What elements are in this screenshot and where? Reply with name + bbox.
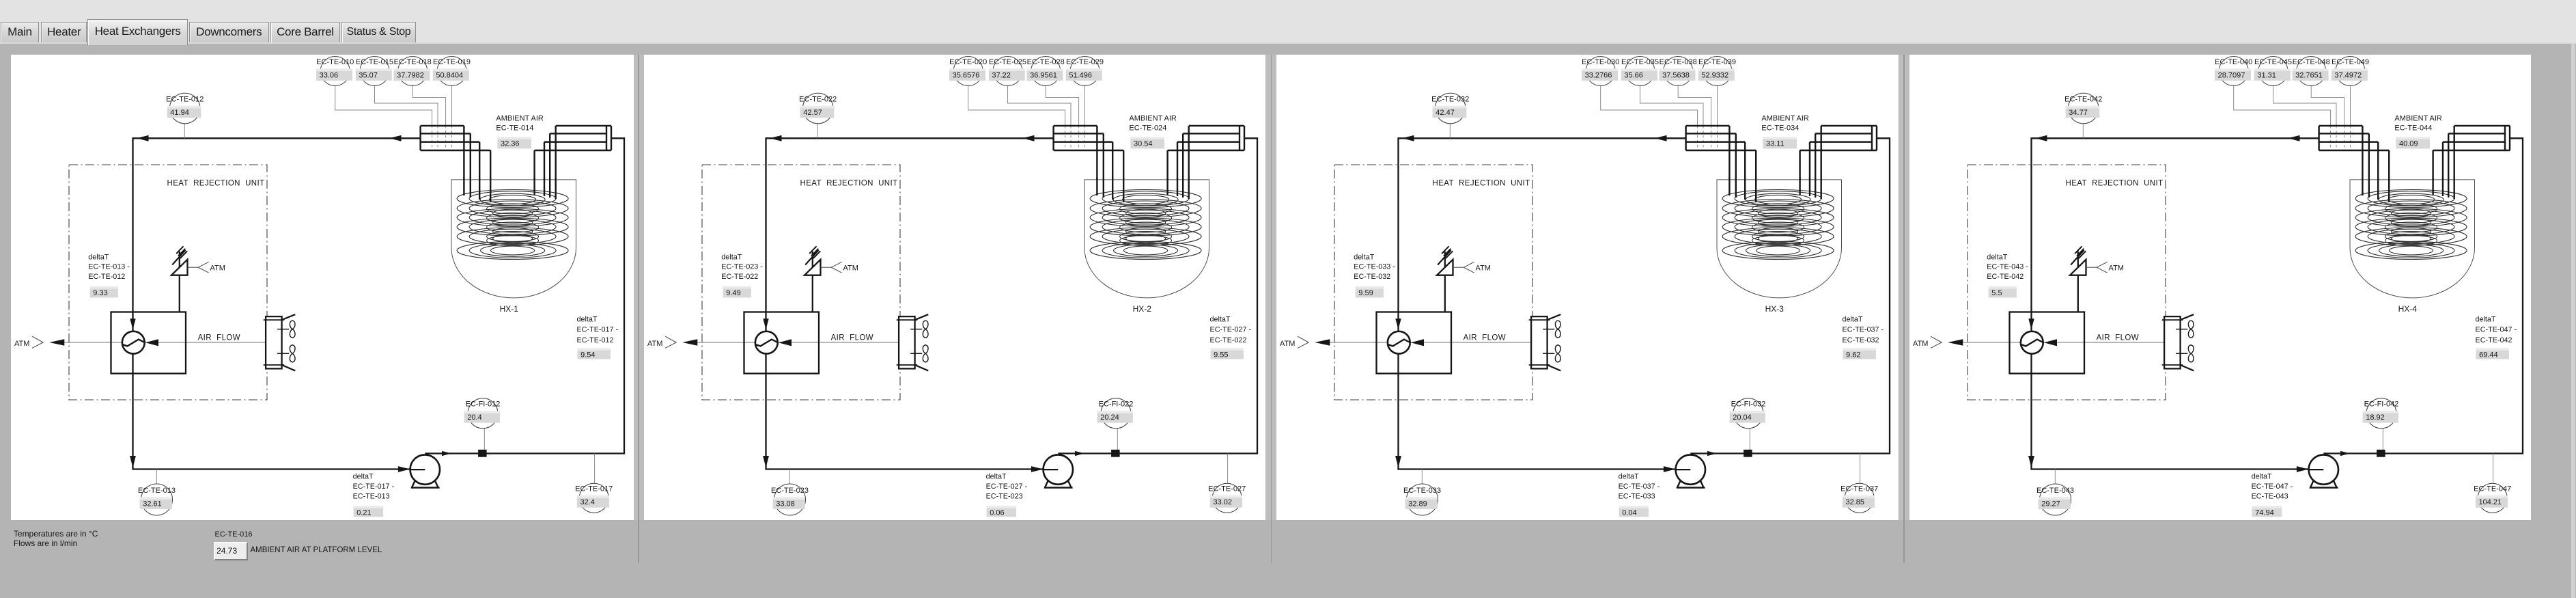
- svg-text:EC-TE-027: EC-TE-027: [1208, 485, 1246, 493]
- svg-text:EC-TE-042: EC-TE-042: [2475, 336, 2512, 344]
- radiator coil: [899, 316, 915, 368]
- flow arrow into fan circle: [2028, 318, 2034, 329]
- svg-text:ATM: ATM: [14, 340, 29, 348]
- air flow arrow at fan outlet: [778, 339, 791, 346]
- leader wire EC-TE-045: [2273, 86, 2336, 126]
- node ATM vent label: [1453, 267, 1464, 268]
- svg-text:20.04: 20.04: [1733, 413, 1752, 422]
- svg-text:42.47: 42.47: [1436, 109, 1455, 117]
- svg-text:deltaT: deltaT: [985, 472, 1006, 480]
- svg-text:EC-TE-043 -: EC-TE-043 -: [1987, 263, 2028, 271]
- HX inlet header bank: [421, 126, 491, 202]
- HX vessel shell: [1717, 180, 1842, 298]
- svg-text:deltaT: deltaT: [1209, 315, 1230, 323]
- svg-text:9.59: 9.59: [1359, 289, 1373, 297]
- fan blades upper: [277, 329, 289, 330]
- svg-text:ATM: ATM: [843, 264, 858, 272]
- svg-text:EC-TE-037 -: EC-TE-037 -: [1619, 483, 1660, 491]
- instrument bubble EC-TE-010: [320, 57, 350, 86]
- leader wire EC-TE-040: [2233, 86, 2330, 126]
- instrument bubble EC-TE-019: [437, 57, 466, 86]
- node ATM vent label: [2086, 267, 2097, 268]
- instrument bubble EC-TE-038: [1664, 57, 1693, 86]
- svg-text:32.7651: 32.7651: [2295, 71, 2323, 79]
- wire main loop: top pipe / left downpipe / bottom pipe: [133, 138, 421, 469]
- instrument bubble EC-TE-015: [360, 57, 389, 86]
- leader wire EC-TE-010: [335, 86, 432, 126]
- svg-text:EC-TE-023 -: EC-TE-023 -: [721, 263, 763, 271]
- wire main loop: top pipe / left downpipe / bottom pipe: [1399, 138, 1686, 469]
- HX inlet header bank: [1053, 126, 1123, 202]
- svg-text:EC-TE-049: EC-TE-049: [2332, 58, 2369, 66]
- HX outlet header bank: [2433, 126, 2509, 202]
- instrument bubble EC-TE-039: [1703, 57, 1732, 86]
- svg-text:deltaT: deltaT: [2475, 315, 2495, 323]
- svg-text:35.66: 35.66: [1625, 71, 1644, 79]
- leader wire EC-TE-048: [2311, 86, 2344, 126]
- instrument bubble EC-TE-025: [993, 57, 1022, 86]
- svg-text:EC-TE-025: EC-TE-025: [989, 58, 1026, 66]
- svg-text:deltaT: deltaT: [1354, 254, 1375, 262]
- svg-text:74.94: 74.94: [2255, 508, 2274, 517]
- svg-text:EC-TE-043: EC-TE-043: [2251, 493, 2288, 501]
- leader wire EC-TE-035: [1640, 86, 1704, 126]
- svg-text:32.61: 32.61: [143, 500, 162, 508]
- heat rejection unit dashed enclosure: [1334, 165, 1532, 400]
- instrument bubble EC-TE-027: [1212, 483, 1242, 513]
- instrument bubble EC-TE-032: [1436, 93, 1466, 124]
- leader wire EC-TE-020: [968, 86, 1065, 126]
- leader wire EC-TE-037: [1860, 454, 1861, 484]
- svg-text:EC-FI-022: EC-FI-022: [1098, 400, 1133, 409]
- footer notes: [14, 529, 98, 548]
- flow arrow into fan circle: [1396, 318, 1401, 329]
- wire pump discharge line to right riser: [2323, 138, 2523, 453]
- coil outlet drop pipes: [535, 178, 556, 199]
- instrument bubble EC-FI-042: [2366, 398, 2396, 429]
- wire pump discharge line to right riser: [425, 138, 624, 453]
- svg-text:31.31: 31.31: [2257, 71, 2276, 79]
- svg-text:35.6576: 35.6576: [952, 71, 979, 79]
- svg-text:52.9332: 52.9332: [1702, 71, 1729, 79]
- svg-text:EC-TE-018: EC-TE-018: [394, 58, 432, 66]
- leader wire EC-FI-022: [1117, 429, 1118, 450]
- coil outlet drop pipes: [2433, 178, 2454, 199]
- instrument bubble EC-TE-022: [802, 93, 833, 124]
- leader wire EC-TE-018: [412, 86, 445, 126]
- vent scribble hatches: [2071, 250, 2084, 265]
- svg-text:37.7982: 37.7982: [397, 71, 424, 79]
- vent triangle: [2070, 260, 2086, 275]
- radiator coil: [266, 316, 282, 368]
- heat exchanger panel 2: [644, 55, 1265, 520]
- leader wire EC-TE-028: [1046, 86, 1078, 126]
- wire air flow line: [1963, 342, 2180, 343]
- svg-text:EC-FI-032: EC-FI-032: [1731, 400, 1766, 409]
- svg-text:deltaT: deltaT: [1843, 315, 1863, 323]
- svg-text:EC-TE-037: EC-TE-037: [1840, 485, 1878, 493]
- svg-text:HEAT REJECTION UNIT: HEAT REJECTION UNIT: [167, 179, 265, 187]
- svg-text:0.06: 0.06: [990, 508, 1004, 517]
- svg-text:HEAT REJECTION UNIT: HEAT REJECTION UNIT: [800, 179, 897, 187]
- coil inlet drop pipes: [2362, 178, 2389, 202]
- instrument bubble EC-TE-035: [1625, 57, 1655, 86]
- svg-text:9.54: 9.54: [580, 351, 595, 359]
- svg-text:EC-TE-017: EC-TE-017: [575, 485, 613, 493]
- svg-text:9.49: 9.49: [726, 289, 740, 297]
- HX helical coil: [2355, 190, 2467, 260]
- svg-text:AIR FLOW: AIR FLOW: [830, 334, 873, 342]
- HX inlet header bank: [1686, 126, 1756, 202]
- instrument bubble EC-TE-013: [141, 484, 173, 515]
- svg-text:AIR FLOW: AIR FLOW: [198, 334, 240, 342]
- blower unit box: [1377, 312, 1452, 374]
- svg-text:deltaT: deltaT: [2251, 472, 2271, 480]
- svg-text:104.21: 104.21: [2478, 498, 2502, 506]
- leader wire EC-FI-012: [484, 429, 485, 450]
- svg-text:HX-4: HX-4: [2398, 304, 2417, 314]
- svg-text:33.08: 33.08: [776, 500, 795, 508]
- svg-text:AIR FLOW: AIR FLOW: [2096, 334, 2138, 342]
- svg-text:AMBIENT AIR: AMBIENT AIR: [2394, 114, 2442, 122]
- blower unit box: [744, 312, 819, 374]
- svg-text:EC-TE-022: EC-TE-022: [1209, 336, 1246, 344]
- flow arrow into pump: [398, 466, 410, 472]
- flow arrow into pump: [1031, 466, 1044, 472]
- instrument bubble EC-FI-012: [468, 398, 498, 429]
- fan blades upper: [910, 329, 922, 330]
- svg-text:28.7097: 28.7097: [2217, 71, 2245, 79]
- instrument bubble EC-TE-049: [2336, 57, 2365, 86]
- fan blades lower: [1543, 353, 1554, 354]
- flow arrow top pipe near corner: [770, 135, 782, 141]
- svg-text:41.94: 41.94: [170, 109, 189, 117]
- fan blades upper: [2176, 329, 2187, 330]
- leader wire EC-FI-042: [2382, 429, 2383, 450]
- svg-text:ATM: ATM: [2108, 264, 2123, 272]
- tab bar: [1, 22, 39, 42]
- svg-text:deltaT: deltaT: [1619, 472, 1639, 480]
- flow arrow left downpipe above bottom corner: [1395, 456, 1401, 468]
- svg-text:EC-TE-019: EC-TE-019: [433, 58, 471, 66]
- vent triangle: [1437, 260, 1453, 275]
- leader wire EC-TE-015: [375, 86, 438, 126]
- svg-text:ATM: ATM: [1280, 340, 1295, 348]
- svg-text:0.21: 0.21: [356, 508, 371, 517]
- svg-text:AMBIENT AIR: AMBIENT AIR: [1129, 114, 1177, 122]
- svg-text:EC-TE-028: EC-TE-028: [1026, 58, 1064, 66]
- svg-text:EC-TE-040: EC-TE-040: [2215, 58, 2252, 66]
- svg-text:EC-TE-045: EC-TE-045: [2254, 58, 2292, 66]
- instrument bubble EC-TE-033: [1407, 484, 1438, 515]
- svg-text:EC-TE-047 -: EC-TE-047 -: [2475, 326, 2517, 334]
- instrument bubble EC-TE-045: [2258, 57, 2288, 86]
- coil inlet drop pipes: [1097, 178, 1123, 202]
- svg-text:AMBIENT AIR: AMBIENT AIR: [1762, 114, 1810, 122]
- leader wire EC-TE-030: [1601, 86, 1698, 126]
- flow arrow top pipe near corner: [137, 135, 149, 141]
- svg-text:EC-TE-027 -: EC-TE-027 -: [985, 483, 1027, 491]
- flow arrow pump discharge: [1707, 451, 1717, 456]
- svg-text:33.2766: 33.2766: [1585, 71, 1612, 79]
- svg-text:36.9561: 36.9561: [1030, 71, 1057, 79]
- leader wire EC-TE-023: [789, 470, 790, 485]
- vent scribble hatches: [1438, 250, 1451, 265]
- svg-text:EC-TE-030: EC-TE-030: [1582, 58, 1619, 66]
- HX helical coil: [1090, 190, 1201, 260]
- vent stack pipe: [1444, 252, 1446, 312]
- pump P1: [1677, 480, 1681, 488]
- instrument bubble EC-TE-047: [2478, 483, 2507, 513]
- leader wire EC-TE-029: [1084, 86, 1085, 126]
- svg-text:EC-TE-013 -: EC-TE-013 -: [88, 263, 130, 271]
- wire main loop: top pipe / left downpipe / bottom pipe: [2031, 138, 2319, 469]
- vent scribble hatches: [172, 250, 185, 265]
- HX outlet header bank: [535, 126, 611, 202]
- blower unit box: [111, 312, 186, 374]
- svg-text:deltaT: deltaT: [721, 254, 742, 262]
- HX vessel shell: [2350, 180, 2475, 298]
- svg-text:18.92: 18.92: [2366, 413, 2385, 422]
- heat exchanger panel 1: [11, 55, 634, 520]
- coil inlet drop pipes: [464, 178, 490, 202]
- svg-text:33.06: 33.06: [320, 71, 339, 79]
- flow element (black square): [478, 450, 487, 457]
- air flow arrow at fan outlet: [145, 339, 158, 346]
- svg-text:EC-TE-012: EC-TE-012: [166, 95, 204, 103]
- leader wire EC-TE-019: [451, 86, 453, 126]
- HX vessel shell: [451, 180, 576, 298]
- svg-text:32.36: 32.36: [501, 139, 520, 148]
- svg-text:EC-TE-037 -: EC-TE-037 -: [1843, 326, 1884, 334]
- svg-text:30.54: 30.54: [1134, 139, 1153, 148]
- svg-text:AIR FLOW: AIR FLOW: [1464, 334, 1506, 342]
- svg-text:35.07: 35.07: [359, 71, 378, 79]
- instrument bubble EC-TE-042: [2068, 93, 2099, 124]
- svg-text:EC-TE-012: EC-TE-012: [88, 273, 125, 281]
- svg-text:EC-TE-047: EC-TE-047: [2474, 485, 2511, 493]
- radiator shroud lines: [282, 314, 296, 320]
- svg-text:32.4: 32.4: [580, 498, 595, 506]
- fan circle F1: [1388, 331, 1410, 354]
- coil outlet drop pipes: [1167, 178, 1188, 199]
- svg-text:ATM: ATM: [210, 264, 225, 272]
- pump P1: [1045, 480, 1048, 488]
- svg-text:HEAT REJECTION UNIT: HEAT REJECTION UNIT: [1433, 179, 1530, 187]
- svg-text:42.57: 42.57: [803, 109, 822, 117]
- svg-text:EC-TE-033: EC-TE-033: [1619, 493, 1655, 501]
- flow arrow top pipe near corner: [1402, 135, 1414, 141]
- svg-text:EC-TE-032: EC-TE-032: [1431, 95, 1469, 103]
- flow arrow top pipe near HX: [1655, 135, 1667, 141]
- leader wire EC-TE-038: [1678, 86, 1711, 126]
- svg-text:EC-TE-022: EC-TE-022: [721, 273, 758, 281]
- svg-text:HX-2: HX-2: [1132, 304, 1151, 314]
- flow arrow into fan circle: [130, 318, 135, 329]
- leader wire EC-TE-022: [817, 124, 818, 139]
- svg-text:deltaT: deltaT: [353, 472, 374, 480]
- radiator coil: [1531, 316, 1548, 368]
- leader wire EC-TE-047: [2492, 454, 2493, 484]
- svg-text:9.33: 9.33: [93, 289, 107, 297]
- pump P1: [2310, 480, 2314, 488]
- svg-text:EC-TE-029: EC-TE-029: [1066, 58, 1104, 66]
- svg-text:EC-TE-022: EC-TE-022: [799, 95, 837, 103]
- svg-text:37.4972: 37.4972: [2334, 71, 2362, 79]
- instrument bubble EC-TE-037: [1845, 483, 1874, 513]
- node ATM vent label: [820, 267, 831, 268]
- svg-text:HX-1: HX-1: [500, 304, 519, 314]
- leader wire EC-TE-012: [184, 124, 185, 139]
- instrument bubble EC-FI-022: [1101, 398, 1131, 429]
- coil outlet drop pipes: [1800, 178, 1821, 199]
- svg-text:EC-TE-024: EC-TE-024: [1129, 124, 1166, 133]
- flow element (black square): [1744, 450, 1752, 457]
- flow arrow into pump: [2296, 466, 2308, 472]
- radiator coil: [2164, 316, 2181, 368]
- leader wire EC-TE-049: [2349, 86, 2351, 126]
- svg-text:EC-TE-034: EC-TE-034: [1762, 124, 1800, 133]
- svg-text:EC-TE-032: EC-TE-032: [1843, 336, 1879, 344]
- vent triangle: [171, 260, 188, 275]
- svg-text:HX-3: HX-3: [1765, 304, 1784, 314]
- svg-text:ATM: ATM: [647, 340, 662, 348]
- svg-text:0.04: 0.04: [1622, 508, 1636, 517]
- radiator shroud lines: [2180, 314, 2194, 320]
- svg-text:51.496: 51.496: [1069, 71, 1092, 79]
- svg-text:29.27: 29.27: [2041, 500, 2060, 508]
- svg-text:37.5638: 37.5638: [1662, 71, 1690, 79]
- leader wire EC-TE-043: [2054, 470, 2056, 485]
- svg-text:EC-TE-020: EC-TE-020: [949, 58, 987, 66]
- instrument bubble EC-TE-043: [2039, 484, 2071, 515]
- svg-text:EC-TE-043: EC-TE-043: [2036, 487, 2074, 495]
- svg-text:20.24: 20.24: [1100, 413, 1119, 422]
- svg-text:deltaT: deltaT: [88, 254, 109, 262]
- HX helical coil: [457, 190, 568, 260]
- svg-text:EC-TE-023: EC-TE-023: [985, 493, 1022, 501]
- instrument bubble EC-FI-032: [1733, 398, 1763, 429]
- flow arrow top pipe near corner: [2035, 135, 2047, 141]
- svg-text:EC-TE-015: EC-TE-015: [356, 58, 393, 66]
- wire pump discharge line to right riser: [1691, 138, 1890, 453]
- svg-text:5.5: 5.5: [1991, 289, 2002, 297]
- instrument bubble EC-TE-030: [1586, 57, 1615, 86]
- vent stack pipe: [811, 252, 813, 312]
- svg-text:EC-TE-042: EC-TE-042: [1987, 273, 2024, 281]
- EC-TE-016 indicator box: [214, 542, 249, 560]
- fan blades lower: [277, 353, 289, 354]
- instrument bubble EC-TE-029: [1070, 57, 1100, 86]
- heat rejection unit dashed enclosure: [1968, 165, 2166, 400]
- svg-text:9.62: 9.62: [1846, 351, 1860, 359]
- fan circle F1: [122, 331, 145, 354]
- instrument bubble EC-TE-048: [2296, 57, 2325, 86]
- svg-text:EC-TE-047 -: EC-TE-047 -: [2251, 483, 2293, 491]
- svg-text:EC-TE-033: EC-TE-033: [1403, 487, 1441, 495]
- leader wire EC-TE-032: [1450, 124, 1451, 139]
- HX vessel shell: [1084, 180, 1209, 298]
- instrument bubble EC-TE-012: [169, 93, 200, 124]
- svg-text:EC-TE-033 -: EC-TE-033 -: [1354, 263, 1396, 271]
- fan blades lower: [2176, 353, 2187, 354]
- leader wire EC-TE-013: [156, 470, 157, 485]
- flow arrow left downpipe above bottom corner: [763, 456, 769, 468]
- flow arrow pump discharge: [442, 451, 451, 456]
- instrument bubble EC-TE-023: [774, 484, 805, 515]
- flow element (black square): [1111, 450, 1120, 457]
- svg-text:AMBIENT AIR: AMBIENT AIR: [496, 114, 544, 122]
- svg-text:50.8404: 50.8404: [436, 71, 463, 79]
- flow arrow pump discharge: [1075, 451, 1084, 456]
- node ATM vent label: [188, 267, 199, 268]
- leader wire EC-TE-025: [1007, 86, 1071, 126]
- wire air flow line: [1330, 342, 1548, 343]
- coil inlet drop pipes: [1730, 178, 1756, 202]
- leader wire EC-TE-042: [2082, 124, 2084, 139]
- fan blades upper: [1543, 329, 1554, 330]
- svg-text:EC-TE-032: EC-TE-032: [1354, 273, 1391, 281]
- wire pump discharge line to right riser: [1058, 138, 1257, 453]
- HX helical coil: [1722, 190, 1834, 260]
- HX outlet header bank: [1800, 126, 1877, 202]
- svg-text:EC-TE-042: EC-TE-042: [2064, 95, 2102, 103]
- flow arrow top pipe near HX: [1022, 135, 1035, 141]
- svg-text:EC-TE-012: EC-TE-012: [577, 336, 614, 344]
- leader wire EC-TE-027: [1227, 454, 1228, 484]
- leader wire EC-TE-033: [1422, 470, 1423, 485]
- svg-text:EC-TE-013: EC-TE-013: [353, 493, 390, 501]
- instrument bubble EC-TE-028: [1031, 57, 1060, 86]
- svg-text:ATM: ATM: [1913, 340, 1928, 348]
- svg-text:33.11: 33.11: [1766, 139, 1784, 148]
- svg-text:HEAT REJECTION UNIT: HEAT REJECTION UNIT: [2065, 179, 2163, 187]
- instrument bubble EC-TE-017: [579, 483, 608, 513]
- svg-text:EC-TE-023: EC-TE-023: [771, 487, 809, 495]
- radiator shroud lines: [914, 314, 928, 320]
- flow arrow left downpipe above bottom corner: [130, 456, 136, 468]
- svg-text:EC-TE-039: EC-TE-039: [1698, 58, 1736, 66]
- pump P1: [412, 480, 415, 488]
- svg-text:37.22: 37.22: [992, 71, 1011, 79]
- fan circle F1: [755, 331, 778, 354]
- vent stack pipe: [179, 252, 180, 312]
- svg-text:EC-TE-038: EC-TE-038: [1660, 58, 1697, 66]
- HX inlet header bank: [2319, 126, 2389, 202]
- flow arrow top pipe near HX: [2288, 135, 2300, 141]
- instrument bubble EC-TE-040: [2219, 57, 2248, 86]
- wire main loop: top pipe / left downpipe / bottom pipe: [766, 138, 1053, 469]
- fan blades lower: [910, 353, 922, 354]
- flow arrow left downpipe above bottom corner: [2028, 456, 2034, 468]
- radiator shroud lines: [1548, 314, 1561, 320]
- svg-text:69.44: 69.44: [2479, 351, 2498, 359]
- svg-text:deltaT: deltaT: [577, 315, 598, 323]
- svg-text:EC-TE-010: EC-TE-010: [316, 58, 354, 66]
- flow arrow into fan circle: [763, 318, 768, 329]
- leader wire EC-FI-032: [1750, 429, 1751, 450]
- leader wire EC-TE-017: [594, 454, 596, 484]
- svg-text:EC-TE-035: EC-TE-035: [1621, 58, 1659, 66]
- svg-text:EC-TE-017 -: EC-TE-017 -: [577, 326, 619, 334]
- svg-text:deltaT: deltaT: [1987, 254, 2007, 262]
- svg-text:EC-FI-042: EC-FI-042: [2364, 400, 2398, 409]
- flow arrow into pump: [1664, 466, 1676, 472]
- svg-text:ATM: ATM: [1476, 264, 1491, 272]
- instrument bubble EC-TE-020: [953, 57, 983, 86]
- svg-text:EC-TE-014: EC-TE-014: [496, 124, 533, 133]
- heat rejection unit dashed enclosure: [702, 165, 900, 400]
